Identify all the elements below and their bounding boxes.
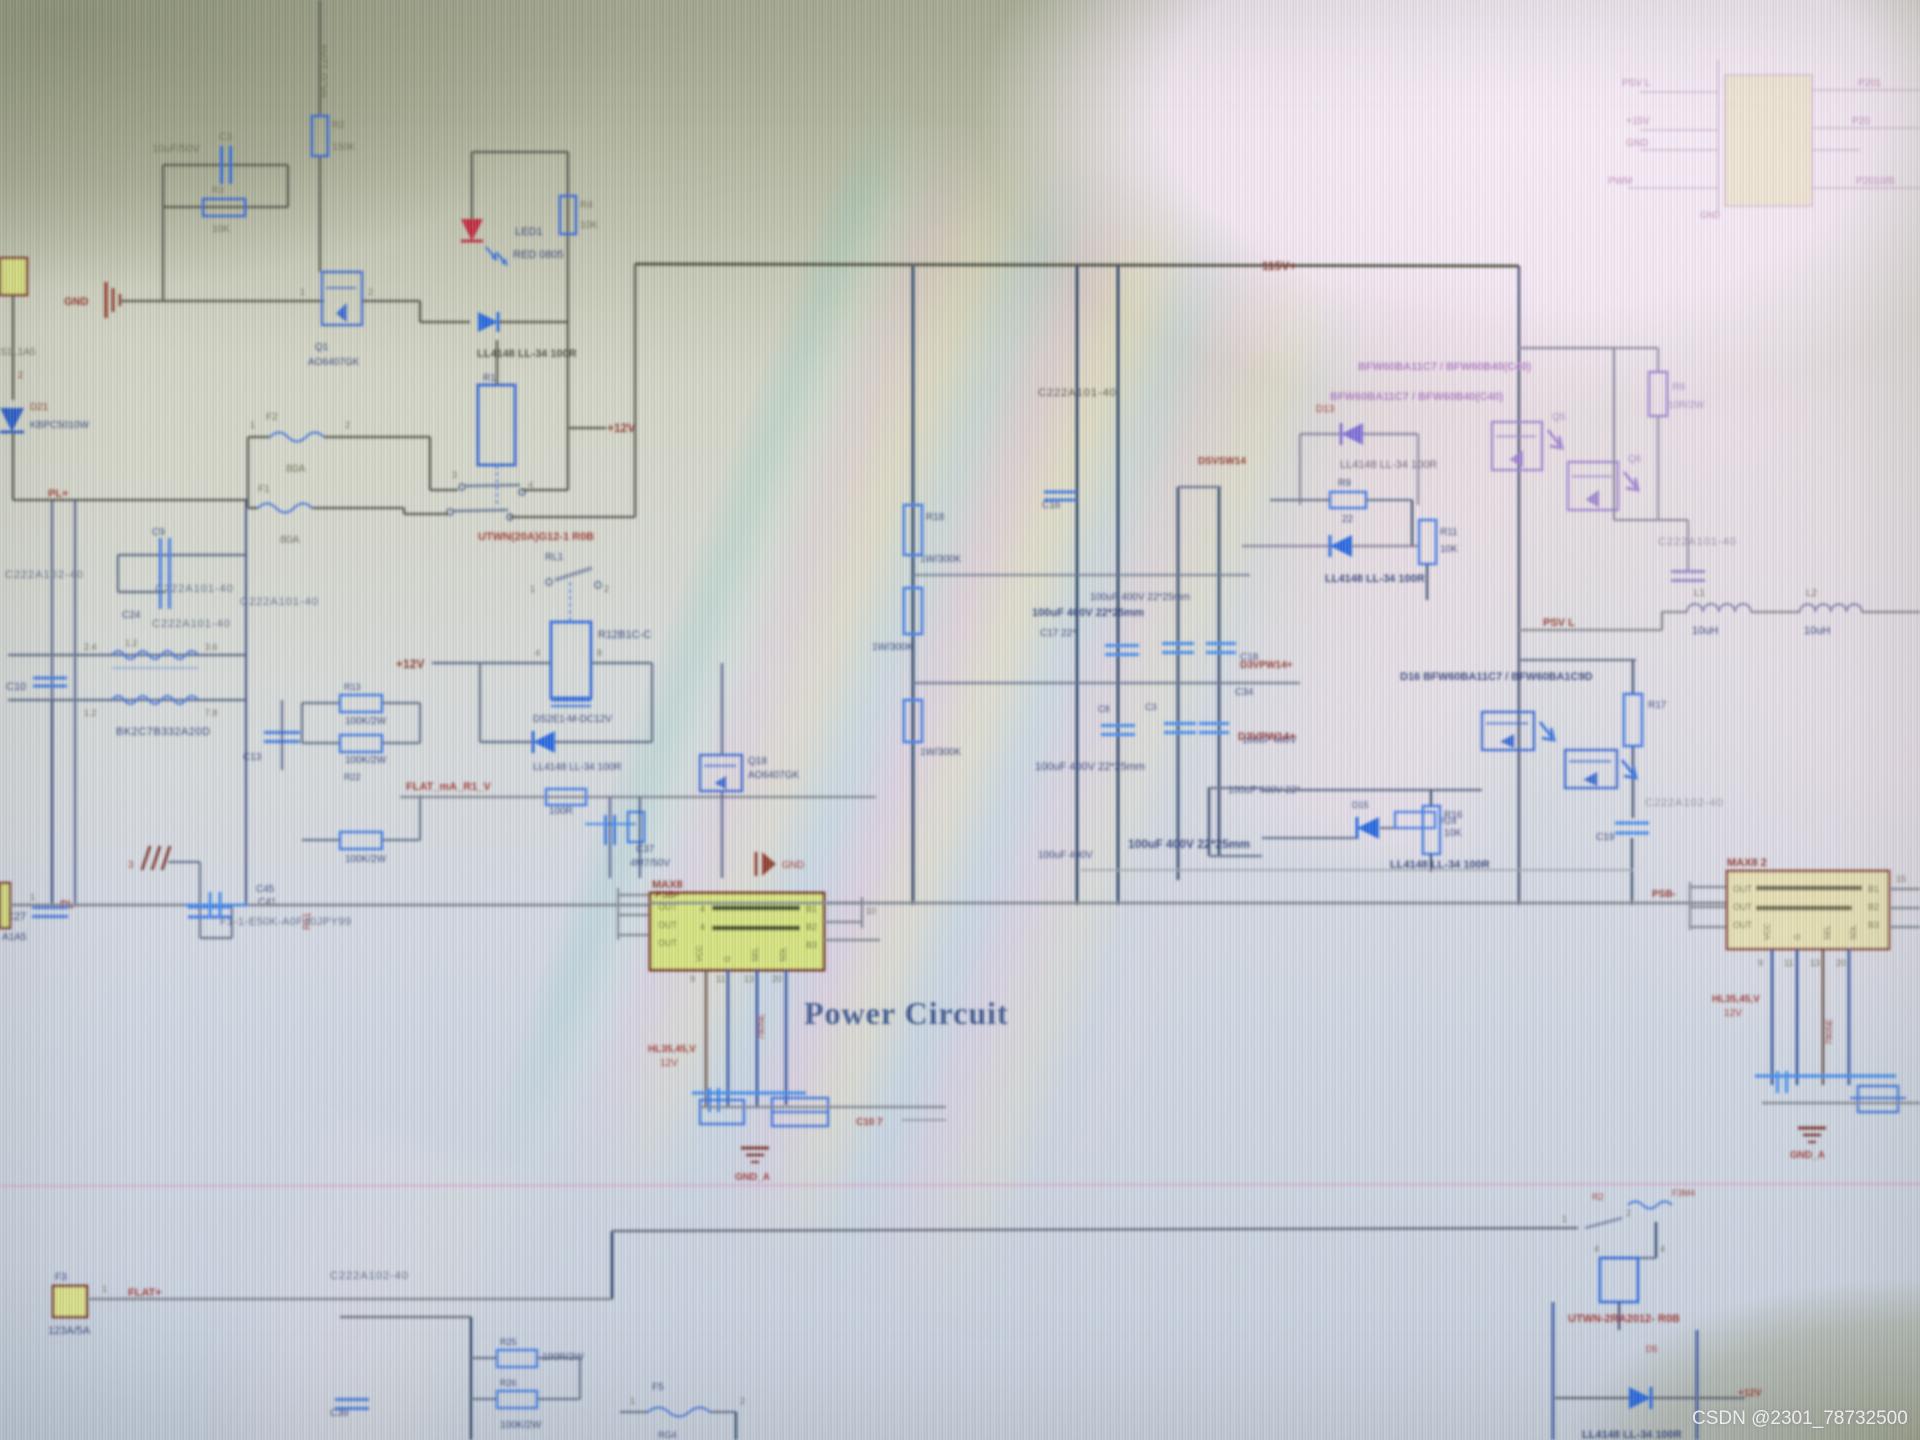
ground symbol AC bbox=[142, 846, 170, 870]
wire rail 660 bbox=[1519, 659, 1636, 661]
diode D21 bbox=[0, 408, 24, 432]
wire D21 down to PL rail bbox=[12, 432, 15, 500]
wire R1 top bbox=[496, 340, 499, 385]
resistor R24 bbox=[1395, 812, 1435, 828]
wire stubs U2 left bbox=[1690, 886, 1727, 888]
IC U3 faint bbox=[1725, 75, 1812, 206]
connector P1 bbox=[0, 258, 27, 295]
inductor L1 bbox=[1662, 611, 1687, 614]
wire psv rail bbox=[1519, 629, 1662, 632]
wire U2 pins down bbox=[1771, 949, 1774, 1085]
capacitor C45 bbox=[208, 892, 211, 918]
capacitor C24 bbox=[159, 575, 162, 609]
component block U2 bbox=[1858, 1086, 1898, 1112]
wire R1 bottom dashed to relay contact bbox=[496, 465, 498, 505]
capacitor C17 bbox=[604, 815, 607, 845]
wire Q1 to D1 branch bbox=[362, 300, 420, 303]
wire PL+ rail bbox=[13, 499, 248, 502]
resistor R19 bbox=[904, 588, 922, 634]
IC U1 MAX8734A bbox=[650, 893, 824, 970]
wire +12V stub bbox=[568, 427, 606, 430]
capacitor C13 bbox=[264, 731, 300, 734]
resistor R3 bbox=[203, 199, 245, 216]
diode D14 bbox=[1330, 535, 1352, 557]
wires U3 left bbox=[1717, 60, 1719, 212]
wire contacts to +115 riser bbox=[522, 489, 568, 492]
diode D3 freewheel bbox=[533, 731, 555, 753]
capacitor bank U2 bottom bbox=[1755, 1074, 1896, 1077]
wire top bottom bus bbox=[612, 1228, 1578, 1231]
inductor L2 bbox=[1800, 604, 1862, 612]
wire U1 pins down bbox=[705, 970, 708, 1108]
connector F3 bbox=[53, 1286, 87, 1317]
wire coil left riser bbox=[479, 663, 481, 742]
gnd arrow bbox=[762, 852, 776, 876]
wire r16 bbox=[1430, 790, 1432, 806]
diode D5 bbox=[1629, 1387, 1651, 1409]
wire d5 rail bbox=[1555, 1397, 1629, 1399]
wire +12V to coil bbox=[432, 662, 551, 664]
relay contact S1a bbox=[459, 484, 465, 490]
capacitor C16 bbox=[1044, 490, 1076, 493]
wire stubs U1 right bbox=[824, 902, 862, 904]
resistor R25 bbox=[497, 1350, 537, 1367]
wire LED loop left bbox=[471, 152, 474, 222]
wire rl1 dashes bbox=[569, 582, 571, 622]
wire r9 rail bbox=[1270, 499, 1330, 501]
wire mid riser bbox=[245, 500, 247, 905]
wire stubs U2 right bbox=[1889, 888, 1920, 890]
wire main bus 115V bbox=[635, 264, 1519, 266]
wire riser x1219 bbox=[1218, 487, 1221, 856]
capacitor C9 bbox=[159, 538, 162, 578]
wire fuse outputs to contacts bbox=[352, 436, 430, 439]
wire gnd stub bbox=[168, 861, 200, 863]
wire bottom risers bbox=[1552, 1302, 1555, 1440]
wire d3 rail bbox=[480, 741, 533, 743]
resistor R23 bbox=[340, 832, 382, 849]
wire U2 gnd rail bbox=[1762, 1102, 1920, 1104]
capacitor row1 bbox=[1105, 644, 1139, 647]
capacitor C33 bbox=[1615, 821, 1649, 824]
wire left riser to bus bbox=[51, 700, 53, 905]
wire bus drop right bbox=[1518, 266, 1521, 905]
fuse F4 bbox=[1628, 1202, 1672, 1209]
wire D1 to loop bbox=[499, 321, 568, 324]
wire riser x1077 bbox=[1076, 266, 1079, 905]
wire junction risers bbox=[51, 500, 53, 905]
resistor R4 bbox=[560, 196, 576, 234]
diode D15 bbox=[1357, 817, 1379, 839]
wire flat bus bbox=[87, 1298, 612, 1301]
wire mid right rail bbox=[1242, 545, 1330, 547]
choke L3 winding lower bbox=[112, 696, 198, 704]
ground symbol U2 bbox=[1798, 1126, 1826, 1129]
wire U1 gnd rail bbox=[700, 1106, 946, 1108]
IC U2 MAX8 bbox=[1727, 871, 1889, 949]
capacitor C39 bbox=[335, 1398, 369, 1401]
wire r23 links bbox=[302, 839, 340, 841]
wire rail 870 bbox=[1080, 869, 1633, 871]
wire flat riser bbox=[611, 1231, 614, 1299]
fuse F2 bbox=[248, 436, 270, 439]
wire connector down bbox=[12, 295, 15, 400]
wire filter rail lower bbox=[8, 699, 246, 702]
wire rail 790 bbox=[1262, 789, 1482, 791]
mid rail2 bbox=[913, 682, 1300, 684]
capacitor C top bbox=[1628, 836, 1631, 839]
wire r11 down bbox=[1426, 564, 1428, 600]
resistor R22 bbox=[340, 735, 382, 752]
wire riser x1118 bbox=[1117, 266, 1120, 905]
wire s2 down bbox=[1655, 1222, 1657, 1258]
wire d13 loop bbox=[1300, 433, 1340, 435]
resistor R11 bbox=[1419, 520, 1436, 564]
diode D13 bbox=[1341, 423, 1363, 445]
wire purple loop right bbox=[1519, 347, 1614, 349]
capacitor C26 purple bbox=[1671, 570, 1705, 573]
resistor R2 bbox=[312, 116, 328, 156]
mosfet Q8 bbox=[1565, 750, 1617, 788]
resistor R9 bbox=[1330, 492, 1366, 508]
resistor R21 bbox=[904, 700, 922, 742]
wire resistor links bbox=[302, 702, 340, 704]
transistor Q1 bbox=[322, 272, 362, 325]
wire q18 riser bbox=[721, 663, 723, 755]
wire main lower bus bbox=[10, 904, 650, 907]
mosfet Q5 purple bbox=[1492, 422, 1542, 470]
ground symbol bbox=[104, 282, 107, 318]
wire loop C3 top bbox=[163, 164, 288, 167]
wire stubs U1 left bbox=[618, 894, 650, 896]
wire LED loop top bbox=[472, 151, 568, 154]
wire cap bank left bbox=[117, 555, 119, 592]
wire bus riser bbox=[634, 264, 637, 517]
choke L3 winding upper bbox=[112, 651, 198, 659]
wire d14 to r11 bbox=[1352, 545, 1420, 547]
wire riser x1178 bbox=[1177, 487, 1180, 880]
resistor R13 bbox=[340, 695, 382, 712]
wire sense risers bbox=[609, 797, 611, 878]
wire d15 rail bbox=[1262, 837, 1356, 839]
relay RL1 coil bbox=[551, 622, 591, 698]
wire coil right to riser bbox=[591, 662, 652, 664]
wire c33 down bbox=[1631, 838, 1633, 905]
wire flat rail bbox=[400, 796, 876, 799]
resistor R15 bbox=[628, 812, 644, 842]
mid rail bbox=[913, 574, 1250, 576]
wire loop bottom bbox=[163, 206, 288, 209]
wire GND rail bbox=[120, 300, 324, 303]
wire LED loop right bbox=[567, 152, 570, 428]
wire r25 loop bbox=[471, 1357, 497, 1359]
diode D1 bbox=[478, 312, 498, 332]
transistor Q18 bbox=[700, 755, 742, 791]
wire filter rail upper bbox=[8, 654, 246, 657]
relay contact S1b bbox=[447, 509, 453, 515]
ground symbol U1 bbox=[741, 1146, 769, 1149]
capacitor C27 bbox=[32, 906, 68, 909]
capacitor bank U1 bottom bbox=[692, 1091, 806, 1094]
wires U3 right bbox=[1812, 89, 1920, 91]
wire main bus lower bbox=[650, 902, 1727, 905]
mosfet Q7 bbox=[1482, 712, 1534, 750]
wire bottom left stub bbox=[340, 1316, 471, 1318]
wire R2 to Q1 bbox=[319, 156, 322, 272]
divider line pink bbox=[0, 1184, 1920, 1186]
resistor R8 purple bbox=[1649, 372, 1667, 416]
mosfet Q6 purple bbox=[1568, 462, 1618, 510]
wire cap bank top bbox=[118, 554, 246, 556]
capacitor C3 bbox=[220, 146, 223, 184]
LED1 bbox=[461, 219, 483, 241]
capacitor row2 bbox=[1101, 724, 1135, 727]
resistor R17 bbox=[1624, 694, 1642, 746]
relay K2 box bbox=[1600, 1257, 1656, 1259]
resistor R18 bbox=[904, 505, 922, 555]
wire step up bbox=[1661, 612, 1664, 630]
wire loop right bbox=[287, 165, 290, 207]
resistor R14 bbox=[546, 789, 586, 805]
resistor R1 bbox=[478, 385, 515, 465]
component block bbox=[700, 1100, 744, 1124]
wire fuse junction bbox=[247, 437, 250, 508]
wire vertical feed to R2 bbox=[319, 0, 322, 116]
fuse F1 bbox=[248, 507, 258, 510]
resistor R26 bbox=[497, 1391, 537, 1408]
wire stub top bbox=[1178, 486, 1221, 488]
wire bottom left riser bbox=[470, 1317, 473, 1440]
wire l1 l2 bbox=[1751, 611, 1800, 614]
wire l2 out bbox=[1862, 611, 1920, 614]
capacitor C41 bbox=[188, 905, 232, 908]
resistor R16 bbox=[1423, 806, 1440, 854]
wire stub 788 bbox=[1208, 787, 1262, 789]
connector P2 bbox=[0, 883, 10, 928]
capacitor C10 bbox=[33, 676, 67, 679]
wire riser c13 bbox=[281, 700, 283, 770]
wire riser x913 bbox=[912, 266, 915, 905]
wire loop left bbox=[162, 165, 165, 301]
